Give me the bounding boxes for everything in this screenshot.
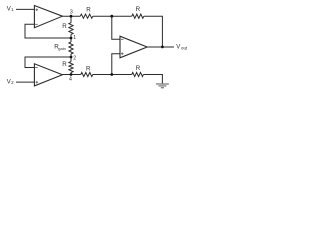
svg-text:R: R bbox=[136, 6, 141, 13]
svg-text:V: V bbox=[7, 79, 11, 85]
svg-text:R: R bbox=[86, 7, 91, 14]
svg-text:R: R bbox=[136, 65, 141, 72]
svg-text:4: 4 bbox=[69, 77, 72, 83]
svg-text:R: R bbox=[86, 65, 91, 72]
svg-text:2: 2 bbox=[11, 80, 14, 85]
svg-text:2: 2 bbox=[73, 55, 76, 61]
svg-text:V: V bbox=[176, 45, 180, 51]
svg-text:1: 1 bbox=[11, 7, 14, 12]
svg-text:R: R bbox=[62, 61, 67, 68]
svg-text:R: R bbox=[62, 23, 67, 30]
svg-text:V: V bbox=[7, 6, 11, 12]
svg-text:out: out bbox=[181, 45, 188, 50]
svg-text:1: 1 bbox=[73, 35, 76, 41]
svg-text:3: 3 bbox=[70, 9, 73, 15]
svg-text:gain: gain bbox=[58, 46, 66, 51]
